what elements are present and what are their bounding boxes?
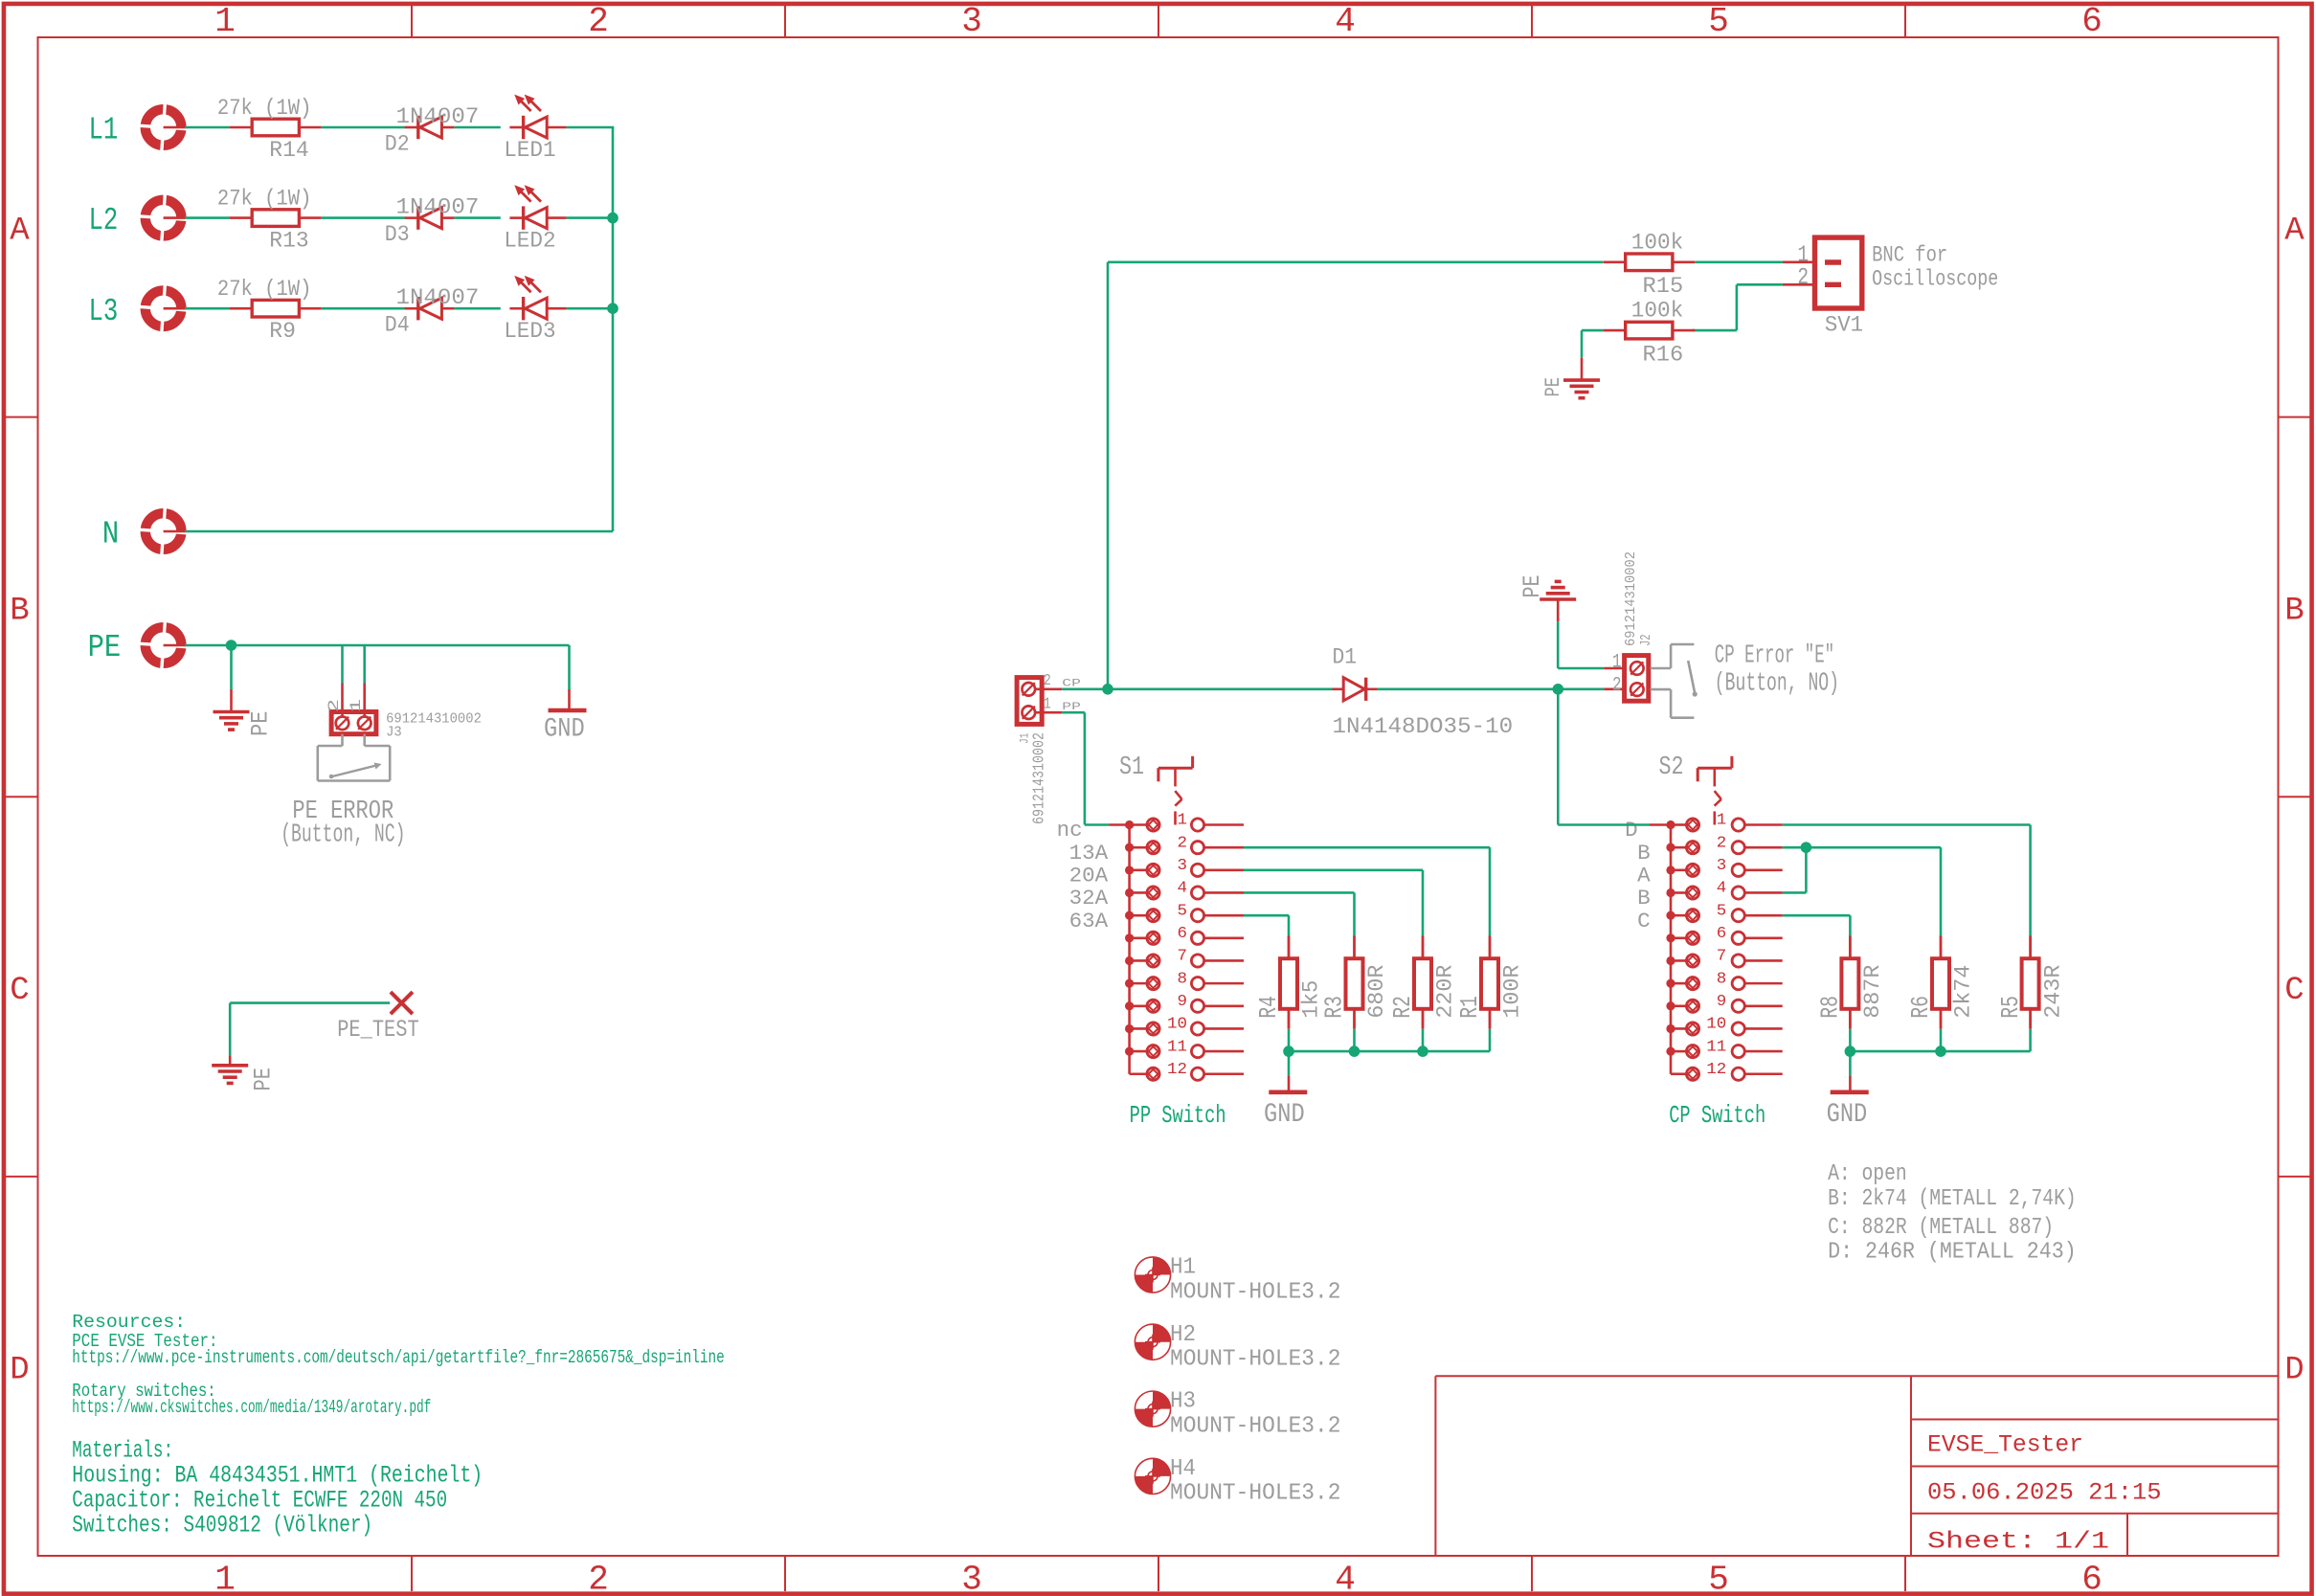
svg-text:887R: 887R [1860,964,1885,1018]
red stub CP to S2 bus [1650,823,1671,826]
svg-text:PE: PE [250,1068,278,1090]
junction CP (J1 riser) [1102,684,1113,695]
wire S1 row to R3 [1244,892,1355,935]
connector J1 pad 1 (PP) [1023,706,1036,719]
svg-text:GND: GND [1827,1100,1868,1130]
switch S1 position 3 row [1125,864,1244,876]
pad N [140,507,187,554]
switch S1 position 4 row [1125,887,1244,899]
svg-text:PE_TEST: PE_TEST [337,1016,419,1044]
svg-text:Oscilloscope: Oscilloscope [1872,266,1998,291]
wire CP riser to S2 row1 [1558,823,1650,826]
wire PE_TEST horizontal [230,1001,390,1004]
svg-text:11: 11 [1706,1038,1726,1056]
ground GND (S1) [1269,1090,1307,1095]
svg-text:680R: 680R [1364,964,1389,1018]
red stub PE ground (J2) [1557,599,1560,621]
svg-text:3: 3 [961,1561,982,1596]
svg-text:A: A [10,213,30,249]
wire D2 to LED1 [454,126,500,129]
frame row letters left [10,213,30,1388]
svg-text:PP Switch: PP Switch [1130,1101,1226,1130]
junction L2/N bus [607,213,618,224]
svg-text:100k: 100k [1631,230,1683,255]
wire S1 GND drop [1288,1051,1291,1076]
svg-text:B: B [2284,593,2304,629]
switch S2 wiper bracket [1698,756,1732,825]
svg-text:1: 1 [214,1561,236,1596]
svg-text:CP Switch: CP Switch [1669,1101,1765,1130]
svg-text:H4: H4 [1170,1456,1196,1482]
svg-text:C: C [2284,973,2304,1009]
wire PE down to ground [230,645,233,689]
switch S2 position 4 row [1666,887,1782,899]
wire LED1 to N bus [567,126,615,129]
switch S1 position 2 row [1125,842,1244,854]
pad L1 [140,103,187,150]
connector J3 pad 1 [358,717,371,731]
connector SV1 box [1815,237,1862,308]
junction S2 GND R8 [1845,1045,1856,1057]
wire CP riser to R15 [1107,262,1110,689]
LED LED3 arrows [516,277,541,292]
svg-text:nc: nc [1057,819,1083,843]
svg-text:R4: R4 [1254,996,1283,1019]
wire R15 to SV1 pin1 [1695,260,1783,263]
svg-text:27k (1W): 27k (1W) [217,277,312,302]
junction S2 GND R6 [1935,1045,1946,1057]
wire PE drop to J3 pin2 [341,645,344,684]
svg-text:(Button, NO): (Button, NO) [1715,670,1839,699]
wire R4 to GND bus [1288,1029,1291,1051]
svg-text:243R: 243R [2040,964,2065,1018]
connector J2 pad 1 [1630,662,1644,675]
svg-text:D: 246R (METALL 243): D: 246R (METALL 243) [1828,1239,2077,1265]
wire S1 row to R2 [1244,870,1423,936]
svg-text:Materials:: Materials: [72,1436,173,1464]
svg-text:GND: GND [544,715,585,745]
svg-text:2: 2 [588,1561,609,1596]
svg-text:CP Error "E": CP Error "E" [1715,641,1834,670]
svg-text:LED2: LED2 [504,229,555,254]
svg-text:3: 3 [1178,857,1188,875]
pad PE [140,621,187,668]
svg-text:R1: R1 [1455,996,1484,1019]
switch S1 position 10 row [1125,1023,1244,1035]
svg-text:2: 2 [1044,672,1051,690]
svg-text:A: A [1637,865,1651,888]
diode D3 [405,206,455,229]
svg-text:SV1: SV1 [1825,312,1863,337]
wire R1 to GND bus [1489,1029,1492,1051]
wire L1 to R14 [185,126,230,129]
junction S1 GND R2 [1417,1045,1428,1057]
wire PE drop to J3 pin1 [363,645,366,684]
switch S1 position 7 row [1125,955,1244,967]
connector J3 box [331,712,376,734]
svg-text:12: 12 [1706,1061,1726,1079]
frame column ticks top [412,6,1905,37]
wire junction to J2 pin2 [1558,687,1604,690]
svg-text:20A: 20A [1069,865,1109,888]
resistor R16 [1603,322,1695,339]
svg-text:691214310002: 691214310002 [1031,732,1049,824]
switch S1 wiper bracket [1158,756,1193,825]
switch S1 position 6 row [1125,932,1244,944]
svg-text:MOUNT-HOLE3.2: MOUNT-HOLE3.2 [1170,1413,1341,1439]
switch S2 position 11 row [1666,1045,1782,1058]
svg-text:PE: PE [1518,575,1546,598]
svg-text:R5: R5 [1996,996,2025,1019]
red stub PE_TEST ground [229,1056,232,1064]
svg-text:1N4007: 1N4007 [396,104,480,129]
resistor R1 [1481,936,1498,1029]
junction L3/N bus [607,303,618,314]
svg-text:D: D [2284,1352,2304,1388]
wire PP J1 to S1 [1062,712,1109,824]
svg-text:100R: 100R [1500,964,1525,1018]
svg-text:4: 4 [1717,880,1727,898]
svg-text:4: 4 [1335,2,1356,41]
svg-text:1: 1 [1178,812,1188,830]
switch S2 position 1 row [1666,819,1782,831]
diode D4 [405,297,455,320]
svg-text:N: N [102,517,120,552]
ground earth PE_TEST [212,1066,248,1084]
wire LED3 to N bus [567,307,615,310]
svg-text:C: 882R (METALL 887): C: 882R (METALL 887) [1828,1215,2054,1241]
svg-text:8: 8 [1178,970,1188,988]
wire N vertical bus [612,127,615,531]
switch S2 position 10 row [1666,1023,1782,1035]
switch S2 position 2 row [1666,842,1782,854]
svg-text:11: 11 [1167,1038,1187,1056]
connector SV1 pin1 bar [1825,259,1841,264]
svg-text:PE: PE [247,711,275,736]
svg-text:6: 6 [2081,2,2102,41]
red lead J1 pin2 [1035,687,1062,690]
title block box [1435,1376,2278,1556]
svg-text:R13: R13 [269,229,308,254]
resistor R2 [1414,936,1431,1029]
svg-text:L3: L3 [89,294,119,329]
red lead J3 pin1 [363,684,366,717]
frame row ticks left [6,417,38,1177]
switch S2 position 9 row [1666,1000,1782,1012]
wire S2 row5 to R8 [1783,915,1851,935]
connector J2 pad 2 [1630,683,1644,696]
svg-text:H1: H1 [1170,1255,1196,1281]
button PE ERROR symbol [318,734,390,781]
switch S1 common bus [1128,825,1131,1074]
wire S2 GND drop [1849,1051,1852,1076]
wire L3 to R9 [185,307,230,310]
svg-text:GND: GND [1264,1100,1305,1130]
svg-text:R8: R8 [1816,996,1845,1019]
svg-text:220R: 220R [1433,964,1458,1018]
connector SV1 pin2 bar [1825,282,1841,287]
wire R13 to D3 [322,216,405,219]
LED LED1 [509,116,566,139]
switch S2 position 6 row [1666,932,1782,944]
pad L3 [140,285,187,332]
mount hole H1 [1135,1257,1170,1293]
svg-text:2: 2 [588,2,609,41]
wire LED2 to N bus [567,216,615,219]
red lead J2 pin2 [1604,687,1626,690]
svg-text:S2: S2 [1659,753,1684,782]
wire PE_TEST down [229,1003,232,1056]
wire R16 left elbow [1582,330,1603,358]
svg-text:R15: R15 [1643,274,1684,299]
ground earth PE (J2, pointing up) [1540,581,1576,599]
svg-text:2k74: 2k74 [1951,965,1976,1019]
wire D3 to LED2 [454,216,500,219]
wire S1 GND bus [1289,1050,1490,1053]
red stub S1 GND [1288,1076,1291,1090]
svg-text:PE: PE [1541,377,1565,397]
svg-text:S1: S1 [1119,753,1144,782]
ground GND symbol (J3 net) [549,708,587,713]
switch S1 position 5 row [1125,910,1244,922]
svg-text:5: 5 [1708,1561,1729,1596]
switch S2 position 8 row [1666,978,1782,990]
switch S1 position 1 row [1125,819,1244,831]
svg-text:R2: R2 [1388,996,1417,1019]
resistor R14 [230,119,322,136]
svg-text:1: 1 [1044,695,1051,713]
wire red stub PE ground [230,689,233,710]
wire R8 to GND bus [1849,1029,1852,1051]
svg-text:05.06.2025 21:15: 05.06.2025 21:15 [1927,1479,2162,1507]
svg-text:B: B [1637,887,1651,910]
wire N [185,530,613,533]
resistor R8 [1841,936,1858,1029]
svg-text:6: 6 [2081,1561,2102,1596]
svg-text:LED3: LED3 [504,319,555,344]
svg-text:2: 2 [1612,675,1622,697]
wire SV1 pin2 green [1737,283,1783,286]
wire PE horizontal [185,644,570,647]
svg-text:1: 1 [1612,651,1622,673]
red lead J3 pin2 [341,684,344,717]
svg-text:R9: R9 [269,319,296,344]
frame column numbers top [214,2,2102,41]
switch S2 position 7 row [1666,955,1782,967]
svg-text:(Button, NC): (Button, NC) [281,821,405,850]
wire CP junction to D1 [1108,687,1333,690]
frame row letters right [2284,213,2305,1388]
wire SV1 pin2 elbow down-left [1692,284,1737,330]
svg-text:1: 1 [1717,812,1727,830]
svg-text:Capacitor: Reichelt ECWFE 220N: Capacitor: Reichelt ECWFE 220N 450 [72,1486,447,1514]
svg-text:H2: H2 [1170,1322,1196,1348]
svg-text:D: D [1625,819,1638,843]
switch S2 position 3 row [1666,864,1782,876]
svg-text:63A: 63A [1069,910,1109,933]
wire S2 row1 to R5 [1783,825,2031,936]
svg-text:B: B [1637,842,1651,865]
wire S2 row2 to R6 [1783,847,1941,935]
resistor R9 [230,300,322,317]
mount hole H4 [1135,1458,1170,1494]
svg-text:C: C [1637,910,1651,933]
svg-text:10: 10 [1167,1016,1187,1034]
wire R3 to GND bus [1353,1029,1356,1051]
svg-text:7: 7 [1717,948,1727,966]
junction PE [226,640,237,651]
svg-text:7: 7 [1178,948,1188,966]
wire R6 to GND bus [1940,1029,1943,1051]
svg-text:12: 12 [1167,1061,1187,1079]
LED LED2 [509,206,566,229]
junction S1 GND R4 [1283,1045,1294,1057]
svg-text:MOUNT-HOLE3.2: MOUNT-HOLE3.2 [1170,1347,1341,1373]
wire CP junction down to S2 [1557,689,1560,825]
svg-text:https://www.ckswitches.com/med: https://www.ckswitches.com/media/1349/ar… [72,1397,431,1418]
svg-text:6: 6 [1717,925,1727,943]
svg-text:MOUNT-HOLE3.2: MOUNT-HOLE3.2 [1170,1481,1341,1507]
svg-text:6: 6 [1178,925,1188,943]
svg-text:27k (1W): 27k (1W) [217,96,312,121]
wire D4 to LED3 [454,307,500,310]
svg-text:J2: J2 [1638,634,1654,646]
svg-text:1N4007: 1N4007 [396,285,480,310]
svg-text:LED1: LED1 [504,138,555,163]
wire R9 to D4 [322,307,405,310]
svg-text:MOUNT-HOLE3.2: MOUNT-HOLE3.2 [1170,1279,1341,1305]
diode D2 [405,116,455,139]
resistor R5 [2022,936,2039,1029]
svg-text:1N4148DO35-10: 1N4148DO35-10 [1333,714,1514,739]
svg-text:691214310002: 691214310002 [1623,551,1639,646]
connector J1 box [1017,678,1042,725]
wire R14 to D2 [322,126,405,129]
connector J2 box [1625,656,1649,702]
svg-text:27k (1W): 27k (1W) [217,187,312,212]
svg-text:BNC for: BNC for [1872,243,1947,268]
svg-text:EVSE_Tester: EVSE_Tester [1927,1431,2083,1459]
switch S1 position 8 row [1125,978,1244,990]
junction S2 row2 [1801,842,1812,853]
pad L2 [140,194,187,241]
red lead SV1 pin2 [1783,283,1815,286]
svg-text:Switches: S409812 (Völkner): Switches: S409812 (Völkner) [72,1511,372,1539]
svg-text:1: 1 [348,699,365,712]
svg-text:D2: D2 [385,131,410,156]
frame row ticks right [2279,417,2311,1177]
svg-text:L1: L1 [89,113,119,148]
svg-text:J3: J3 [386,725,402,741]
svg-text:B: 2k74 (METALL 2,74K): B: 2k74 (METALL 2,74K) [1828,1186,2077,1212]
svg-text:https://www.pce-instruments.co: https://www.pce-instruments.com/deutsch/… [72,1347,724,1368]
svg-text:2: 2 [1178,834,1188,852]
connector J1 pad 2 (CP) [1023,683,1036,696]
svg-text:13A: 13A [1069,842,1109,865]
mount hole H3 [1135,1391,1170,1427]
ground earth PE (R16) [1563,380,1600,398]
svg-text:32A: 32A [1069,887,1109,910]
junction S1 GND R3 [1349,1045,1360,1057]
svg-text:2: 2 [326,699,343,712]
frame column numbers bottom [214,1561,2102,1596]
switch S1 position 9 row [1125,1000,1244,1012]
wire S1 row to R4 [1244,915,1289,935]
resistor R4 [1280,936,1297,1029]
svg-text:R3: R3 [1320,996,1349,1019]
svg-text:D4: D4 [385,313,410,338]
LED LED2 arrows [516,187,541,202]
LED LED1 arrows [516,96,541,111]
svg-text:J1: J1 [1018,732,1032,744]
svg-text:5: 5 [1708,2,1729,41]
svg-text:R6: R6 [1906,996,1935,1019]
svg-text:B: B [10,593,29,629]
wire S2 row2 to row4 [1783,847,1807,892]
red stub PP to S1 bus [1109,823,1129,826]
resistor R13 [230,210,322,227]
svg-text:H3: H3 [1170,1389,1196,1415]
svg-text:9: 9 [1717,993,1727,1011]
svg-text:2: 2 [1797,265,1809,291]
svg-text:R16: R16 [1643,342,1684,367]
svg-text:Housing: BA 48434351.HMT1 (Rei: Housing: BA 48434351.HMT1 (Reichelt) [72,1461,483,1489]
svg-text:Sheet: 1/1: Sheet: 1/1 [1927,1528,2109,1556]
svg-text:1N4007: 1N4007 [396,195,480,220]
wire CP J1 to junction [1062,687,1108,690]
svg-text:9: 9 [1178,993,1188,1011]
wire PE right drop to GND [568,645,571,689]
resistor R3 [1346,936,1363,1029]
LED LED3 [509,297,566,320]
svg-text:3: 3 [1717,857,1727,875]
red lead SV1 pin1 [1783,260,1815,263]
svg-text:R14: R14 [269,138,308,163]
wire S2 GND bus [1850,1050,2030,1053]
wire PE riser (J2) [1557,621,1560,668]
mount hole H2 [1135,1324,1170,1360]
switch S2 common bus [1670,825,1673,1074]
svg-text:PE: PE [88,630,122,665]
switch S1 position 11 row [1125,1045,1244,1058]
svg-text:1: 1 [214,2,236,41]
red stub GND (J3 net) [568,689,571,708]
svg-text:A: A [2284,213,2305,249]
svg-text:5: 5 [1178,902,1188,920]
wire R2 to GND bus [1422,1029,1425,1051]
svg-text:8: 8 [1717,970,1727,988]
red lead J1 pin1 [1035,711,1062,714]
svg-text:3: 3 [961,2,982,41]
wire S1 row to R1 [1244,847,1490,935]
svg-text:2: 2 [1717,834,1727,852]
red stub R16 ground [1581,358,1584,379]
diode D1 (anode left, cathode right) [1333,678,1378,701]
wire D1 to J2 junction [1378,687,1559,690]
button CP Error symbol [1651,644,1698,718]
svg-text:4: 4 [1178,880,1188,898]
connector J3 pad 2 [336,717,349,731]
svg-text:L2: L2 [89,203,119,238]
svg-text:A: open: A: open [1828,1161,1907,1187]
svg-text:10: 10 [1706,1016,1726,1034]
red lead J2 pin1 [1604,667,1626,670]
wire R5 to GND bus [2029,1029,2032,1051]
PE_TEST open-end X [391,992,413,1014]
ground earth PE (left) [214,712,250,731]
frame column ticks bottom [412,1556,1905,1591]
wire L2 to R13 [185,216,230,219]
